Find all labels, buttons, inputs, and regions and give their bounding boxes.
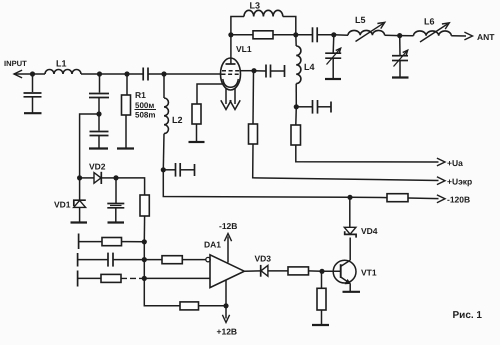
resistor R-rail (-120V line) xyxy=(387,194,408,202)
junction input node xyxy=(30,71,35,76)
wire R-base to node L xyxy=(309,270,323,272)
svg-text:L1: L1 xyxy=(56,59,67,69)
ground under R-emitter xyxy=(312,324,329,326)
svg-text:L6: L6 xyxy=(424,17,435,27)
wire node L down to R-emitter xyxy=(321,271,323,288)
tube anode plate xyxy=(226,63,236,65)
VT1 emitter with arrow xyxy=(341,277,351,284)
wire node C left and down to VD2 node xyxy=(80,114,99,178)
wire R-feedback to output node K xyxy=(199,305,227,307)
wire VT1 collector up to VD4 xyxy=(349,238,351,261)
capacitor C-G xyxy=(107,203,124,205)
L5 adjust arrow xyxy=(356,24,384,42)
tube anode lead from L3 node xyxy=(230,35,232,64)
resistor R-anode feed xyxy=(291,125,301,145)
ground under C2b xyxy=(89,147,108,149)
resistor R-feedback xyxy=(180,302,199,310)
terminal arrow -120V xyxy=(437,195,445,203)
wire input node down to C-in xyxy=(32,74,34,92)
wire R-row3 to node J xyxy=(121,277,144,279)
inductor L5 (variable) xyxy=(334,34,348,37)
svg-text:ANT: ANT xyxy=(477,32,495,42)
transistor VT1 circle xyxy=(333,260,356,283)
wire rail to R-rail xyxy=(350,196,387,198)
resistor R-row3 xyxy=(101,274,121,282)
diode VD2 xyxy=(94,173,101,184)
junction node E (x296,y107) xyxy=(294,104,299,109)
svg-text:L2: L2 xyxy=(172,115,183,125)
junction VD4 top on -120V rail xyxy=(347,195,352,200)
wire pi node 1 down xyxy=(332,35,335,53)
wire row3 to R-row3 xyxy=(78,277,101,279)
junction node B (x127, R1 top) xyxy=(124,71,129,76)
svg-text:VD2: VD2 xyxy=(89,162,106,172)
ground under C-in xyxy=(24,112,42,114)
svg-text:VT1: VT1 xyxy=(361,268,377,278)
wire emitter to ground xyxy=(349,284,351,292)
wire L3 right down to main node xyxy=(283,17,296,35)
resistor R-tank (parallel with L3) xyxy=(253,31,273,39)
junction pi node 1 (x333.8) xyxy=(331,32,336,37)
wire node I to R-in xyxy=(144,259,162,261)
wire R-rail to -120V arrow xyxy=(408,197,439,200)
wire VD1 to ground xyxy=(79,207,81,222)
tube control grid (dashed) xyxy=(222,73,240,75)
wire cap to grid node xyxy=(148,73,164,75)
terminal bar row2 xyxy=(77,253,79,267)
wire pi node 2 down xyxy=(399,36,401,55)
wire node G right and down through R-G xyxy=(116,178,145,195)
svg-text:L4: L4 xyxy=(304,62,315,72)
wire C-var1 to ground xyxy=(332,58,334,78)
capacitor C2a (upper, node A) xyxy=(89,93,109,95)
heater arrow right xyxy=(230,100,240,109)
op-amp DA1 triangle xyxy=(210,255,244,288)
resistor R-cathode xyxy=(192,104,201,124)
wire anode node up to L3 xyxy=(231,17,244,35)
terminal arrow +Ua xyxy=(437,158,445,166)
ground under C-G xyxy=(108,221,125,223)
wire node G down to C-G xyxy=(115,178,117,203)
inductor L2 xyxy=(164,98,168,134)
inductor L3 xyxy=(244,10,283,16)
junction node L (x322,y271.3) xyxy=(319,269,324,274)
C-var2 adjust arrow xyxy=(394,52,407,67)
junction node D (x163,y170) xyxy=(161,167,166,172)
terminal bar right of C-E xyxy=(330,102,332,113)
svg-text:+Uа: +Uа xyxy=(447,158,463,168)
junction node K (x226,y305.8) xyxy=(223,303,228,308)
resistor R-screen xyxy=(249,124,258,144)
svg-text:+12В: +12В xyxy=(217,327,238,337)
wire grid node to tube VL1 grid xyxy=(164,73,222,75)
tube VL1 envelope xyxy=(221,58,241,90)
wire C2b to ground xyxy=(98,136,100,149)
diode VD3 (cathode left) xyxy=(260,265,262,277)
wire screen node down to R-screen xyxy=(252,71,255,124)
tube heater leads xyxy=(225,88,227,104)
wire R-anode to +Ua rail xyxy=(296,145,439,162)
wire row1 to R-row1 xyxy=(79,241,102,243)
svg-text:VD4: VD4 xyxy=(361,226,378,236)
wire grid node down to L2 xyxy=(163,74,165,98)
wire C-in to ground xyxy=(32,97,34,113)
wire R-cathode to ground xyxy=(196,124,198,142)
wire anode node to R-tank xyxy=(231,34,253,36)
wire L5 to pi node 2 xyxy=(385,34,400,36)
inductor L6 (variable) xyxy=(400,35,414,37)
svg-text:500м: 500м xyxy=(135,101,154,110)
zener VD4 (cathode down) xyxy=(344,227,356,234)
wire L4 to junction E xyxy=(295,84,297,107)
resistor R-in (to inverting input) xyxy=(162,256,182,264)
junction pi node 2 (x399.7) xyxy=(397,33,402,38)
resistor R-G xyxy=(140,195,149,216)
ground under VD1 xyxy=(71,221,88,223)
capacitor C-in (input shunt) xyxy=(24,92,42,94)
wire node L to VT1 base xyxy=(322,270,341,272)
resistor R1 xyxy=(122,95,131,115)
svg-text:L5: L5 xyxy=(355,15,366,25)
ground under C-var2 xyxy=(392,76,409,78)
heater arrow left xyxy=(221,100,231,109)
wire C-G to ground xyxy=(115,208,117,222)
svg-text:VL1: VL1 xyxy=(236,44,252,54)
wire L6 to ANT arrow xyxy=(451,35,466,37)
wire node B down to R1 xyxy=(126,74,128,95)
resistor R-row1 xyxy=(102,238,122,246)
wire VD4 to -120V rail junction xyxy=(349,197,351,227)
ground under R-cathode xyxy=(189,141,205,143)
junction tank node (x295.8,y34.8) xyxy=(293,32,298,37)
junction node J (x144,y278.4) xyxy=(142,276,147,281)
tube cathode curve xyxy=(223,79,239,87)
svg-text:R1: R1 xyxy=(135,90,146,100)
wire R-G down to node H xyxy=(143,216,145,242)
svg-text:-12В: -12В xyxy=(219,221,237,231)
svg-text:Рис. 1: Рис. 1 xyxy=(453,310,483,321)
wire C-row2 to node I xyxy=(113,259,144,261)
L6 adjust arrow xyxy=(420,24,448,42)
wire node D down to -120V rail xyxy=(163,170,350,198)
terminal bar right of C-D xyxy=(194,164,196,176)
inductor L4 xyxy=(296,46,301,84)
terminal arrow ANT xyxy=(464,32,472,40)
junction node F (VD2 anode, x79.6,y178) xyxy=(77,175,82,180)
ground under C-var1 xyxy=(325,78,341,80)
capacitor C-row2 xyxy=(107,253,109,267)
junction node A (x99.5) xyxy=(97,71,102,76)
wire L2 to junction D xyxy=(162,134,165,170)
terminal bar right of C-screen xyxy=(284,65,286,77)
wire C2a to junction xyxy=(98,98,100,115)
wire R-in to op-amp inverting input xyxy=(182,259,206,261)
svg-text:VD1: VD1 xyxy=(54,200,71,210)
tube screen grid (dashed) xyxy=(222,70,240,72)
wire cathode exits left xyxy=(197,84,224,104)
capacitor C-var2 (trimmer) xyxy=(392,55,408,57)
junction grid node (x164) xyxy=(161,71,166,76)
svg-text:L3: L3 xyxy=(250,1,261,11)
capacitor C-var1 (trimmer) xyxy=(325,52,341,54)
svg-text:508m: 508m xyxy=(135,111,155,120)
wire node F to VD2 xyxy=(80,177,94,179)
junction node G (x116,y178) xyxy=(113,175,118,180)
wire screen grid to screen node xyxy=(240,70,255,72)
capacitor C-couple on main line xyxy=(142,68,144,81)
capacitor C-D (series, open terminal) xyxy=(175,163,177,177)
terminal bar row3 xyxy=(77,271,79,287)
ground under R1 xyxy=(117,147,134,149)
junction anode node (x230.9,y34.8) xyxy=(228,32,233,37)
wire R-emitter to ground xyxy=(321,310,323,325)
wire vertical node H to node J xyxy=(143,242,145,279)
wire C-var2 to ground xyxy=(399,61,401,78)
capacitor C-E (series, open terminal) xyxy=(312,100,314,114)
wire VD3 to R-base xyxy=(268,270,288,272)
terminal arrow +Uekr xyxy=(437,177,445,185)
wire L1 to coupling cap, main line y74 xyxy=(33,73,45,75)
wire node A down xyxy=(99,74,101,93)
junction node C (x99,y114) xyxy=(96,111,101,116)
capacitor C-screen xyxy=(265,65,267,78)
wire R-row1 to node H xyxy=(122,241,145,243)
positive supply pin arrow up xyxy=(227,237,229,263)
wire node E to C-E xyxy=(296,106,312,108)
inverting input circle xyxy=(206,257,210,261)
wire R1 to ground xyxy=(125,115,127,148)
svg-text:INPUT: INPUT xyxy=(4,59,27,68)
zener VD1 xyxy=(79,178,81,200)
VT1 base bar xyxy=(340,264,342,278)
ground under VT1 emitter xyxy=(343,291,361,293)
junction node H (x144,y242) xyxy=(142,239,147,244)
wire R-screen to +Uekr rail xyxy=(253,144,439,181)
svg-text:VD3: VD3 xyxy=(255,254,272,264)
wire tank node down to L4 xyxy=(295,35,297,46)
wire op-amp output to VD3 xyxy=(244,270,260,272)
resistor R-emitter network xyxy=(317,288,326,310)
junction screen node (x254,y70.7) xyxy=(251,68,256,73)
wire tank node to C-out1 xyxy=(296,34,312,36)
resistor R-base xyxy=(288,267,309,275)
svg-text:DA1: DA1 xyxy=(204,240,221,250)
capacitor C2b (lower, node C) xyxy=(98,114,100,131)
inductor L1 xyxy=(45,70,81,75)
capacitor C-out1 (series) xyxy=(312,27,314,42)
svg-text:+Uэкр: +Uэкр xyxy=(447,176,472,186)
C-var1 adjust arrow xyxy=(327,50,340,65)
wire screen node to C-screen xyxy=(254,70,266,72)
wire row2 to C-row2 xyxy=(78,259,108,261)
negative supply pin down xyxy=(225,280,227,319)
wire node D to C-D xyxy=(163,169,175,171)
wire node J to op-amp non-inverting input xyxy=(144,277,210,279)
VT1 collector xyxy=(341,260,351,266)
wire R-tank to tank node xyxy=(273,34,296,36)
input terminal arrow xyxy=(14,73,33,75)
wire node E down to R-anode xyxy=(295,107,298,125)
svg-text:-120В: -120В xyxy=(447,195,470,205)
junction node I (x144,y259.6) xyxy=(142,257,147,262)
wire VD2 to node G xyxy=(101,177,116,179)
wire node J down to feedback row xyxy=(144,278,180,305)
terminal bar row1 xyxy=(78,234,80,250)
